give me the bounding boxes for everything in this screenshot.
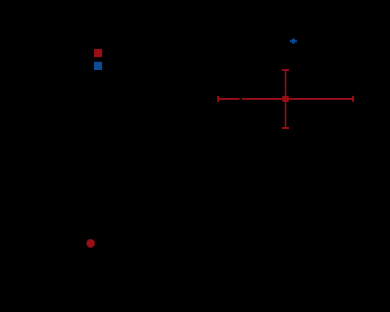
red point 2 right cap bbox=[93, 241, 95, 245]
red errorbar bottom cap bbox=[282, 127, 289, 129]
red point 2 top cap bbox=[89, 239, 93, 241]
blue errorbar top cap bbox=[292, 38, 294, 40]
red point 2 left cap bbox=[86, 241, 88, 245]
red point 2 marker bbox=[87, 240, 93, 246]
blue errorbar bottom cap bbox=[292, 42, 294, 44]
blue errorbar horizontal line bbox=[291, 40, 296, 42]
black occluding marker over horizontal line bbox=[240, 98, 243, 101]
blue errorbar vertical line bbox=[292, 39, 294, 43]
red point 2 bottom cap bbox=[89, 246, 93, 248]
red errorbar horizontal line bbox=[218, 98, 353, 100]
legend marker blue square bbox=[94, 62, 102, 70]
red errorbar center marker bbox=[282, 96, 288, 102]
blue errorbar center marker bbox=[292, 40, 295, 43]
red errorbar right cap bbox=[352, 96, 354, 102]
blue errorbar right cap bbox=[295, 40, 297, 43]
legend marker red square bbox=[94, 49, 102, 57]
red errorbar top cap bbox=[282, 69, 289, 71]
blue errorbar left cap bbox=[290, 40, 292, 43]
red errorbar vertical line bbox=[285, 70, 287, 128]
red errorbar left cap bbox=[217, 96, 219, 102]
